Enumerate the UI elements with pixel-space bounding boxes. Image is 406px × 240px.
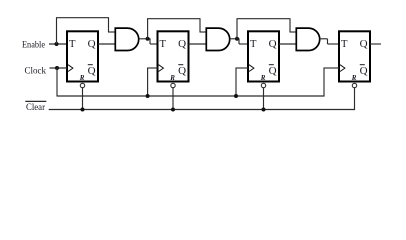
U4 clock edge triangle [340,65,345,72]
U3 pin label Qbar overline [269,64,274,66]
wire U2 Q output to G2 bottom input [189,43,207,45]
wire Enable riser to top rail 1 [56,18,58,44]
wire G1 top input stub [108,31,116,33]
wire drop from rail 3 to G3 top input [289,19,291,32]
svg-text:R: R [351,74,357,82]
svg-text:R: R [260,74,266,82]
wire into U4 pin T [328,43,340,45]
node Clock junction [55,66,59,70]
wire G3 output [320,38,328,40]
U3 reset bubble [261,83,265,87]
svg-text:Q: Q [178,38,186,50]
svg-text:Clock: Clock [25,66,47,77]
wire clock stub into U3 [236,67,249,69]
node G1 output junction [146,37,150,41]
svg-text:Q: Q [88,38,96,50]
wire U3 Q output to G3 bottom input [279,43,297,45]
AND gate G3 [296,28,319,50]
node clock rail junction at U3 [234,94,238,98]
node G2 output junction [235,37,239,41]
U4 pin label Qbar overline [360,64,365,66]
wire U1 Q output to G1 bottom input [98,43,116,45]
T flip-flop U3 [248,31,279,87]
svg-text:T: T [250,39,257,50]
U2 body [158,31,189,81]
U4 reset bubble [352,83,356,87]
T flip-flop U1 [67,31,98,87]
wire drop from rail 1 to G1 top input [108,18,110,32]
wire G3 top input stub [290,31,297,33]
node Enable junction [55,42,59,46]
U1 body [67,31,98,81]
wire U4 Q output stub [370,43,381,45]
svg-text:R: R [79,74,85,82]
wire clock stub into U4 [324,67,340,69]
wire top rail 1 (Enable to G1) [56,17,109,19]
U1 reset bubble [80,83,84,87]
svg-text:Clear: Clear [26,102,46,113]
wire into U2 pin T [150,43,158,45]
wire into U3 pin T [239,43,248,45]
wire Clock input to U1 clock pin [50,67,68,69]
node clear rail junction at U1 [81,108,85,112]
wire Clock drop to clock rail [56,68,58,96]
wire U3 reset drop [263,88,265,110]
node clear rail junction at U2 [171,108,175,112]
svg-text:T: T [341,39,348,50]
U3 body [248,31,279,81]
T flip-flop U2 [158,31,189,87]
AND gate G1 [115,28,138,50]
U1 pin label Qbar overline [88,64,93,66]
U2 clock edge triangle [159,65,164,72]
svg-text:Q: Q [178,65,186,77]
wire jog down G3 output to U4 pin T [327,39,329,44]
node clear rail junction at U3 [262,108,266,112]
wire jog down G2 output to U3 pin T [238,39,240,44]
svg-text:Q: Q [269,65,277,77]
U3 clock edge triangle [249,65,254,72]
wire G2 top input stub [200,31,207,33]
wire G2 output riser to top rail 3 [236,19,238,39]
wire clear rail [49,109,355,111]
svg-text:Q: Q [269,38,277,50]
wire U1 reset drop [82,88,84,110]
wire Enable input to U1 pin T [49,43,67,45]
wire U2 reset drop [172,88,174,110]
svg-text:T: T [160,39,167,50]
wire jog down G1 output to U2 pin T [149,39,151,44]
wire clock riser to U3 [235,68,237,96]
wire clock stub into U2 [147,67,157,69]
wire top rail 2 (G1 to G2) [147,18,200,20]
U2 pin label Qbar overline [178,64,183,66]
wire G2 output [230,38,240,40]
wire drop from rail 2 to G2 top input [199,19,201,32]
wire clock rail [57,95,325,97]
wire G1 output [139,38,151,40]
svg-text:Enable: Enable [22,39,45,50]
T flip-flop U4 [339,31,370,87]
wire clock riser to U4 [323,68,325,97]
wire U4 reset drop [354,88,356,110]
input label Clear overline [25,100,46,102]
U2 reset bubble [171,83,175,87]
node clock rail junction at U2 [146,94,150,98]
svg-text:R: R [169,74,175,82]
svg-text:T: T [69,39,76,50]
AND gate G2 [206,28,229,50]
svg-text:Q: Q [360,65,368,77]
wire clock riser to U2 [147,68,149,96]
wire G1 output riser to top rail 2 [147,19,149,39]
svg-text:Q: Q [360,38,368,50]
U1 clock edge triangle [68,65,73,72]
U4 body [339,31,370,81]
svg-text:Q: Q [88,65,96,77]
wire top rail 3 (G2 to G3) [237,18,291,20]
